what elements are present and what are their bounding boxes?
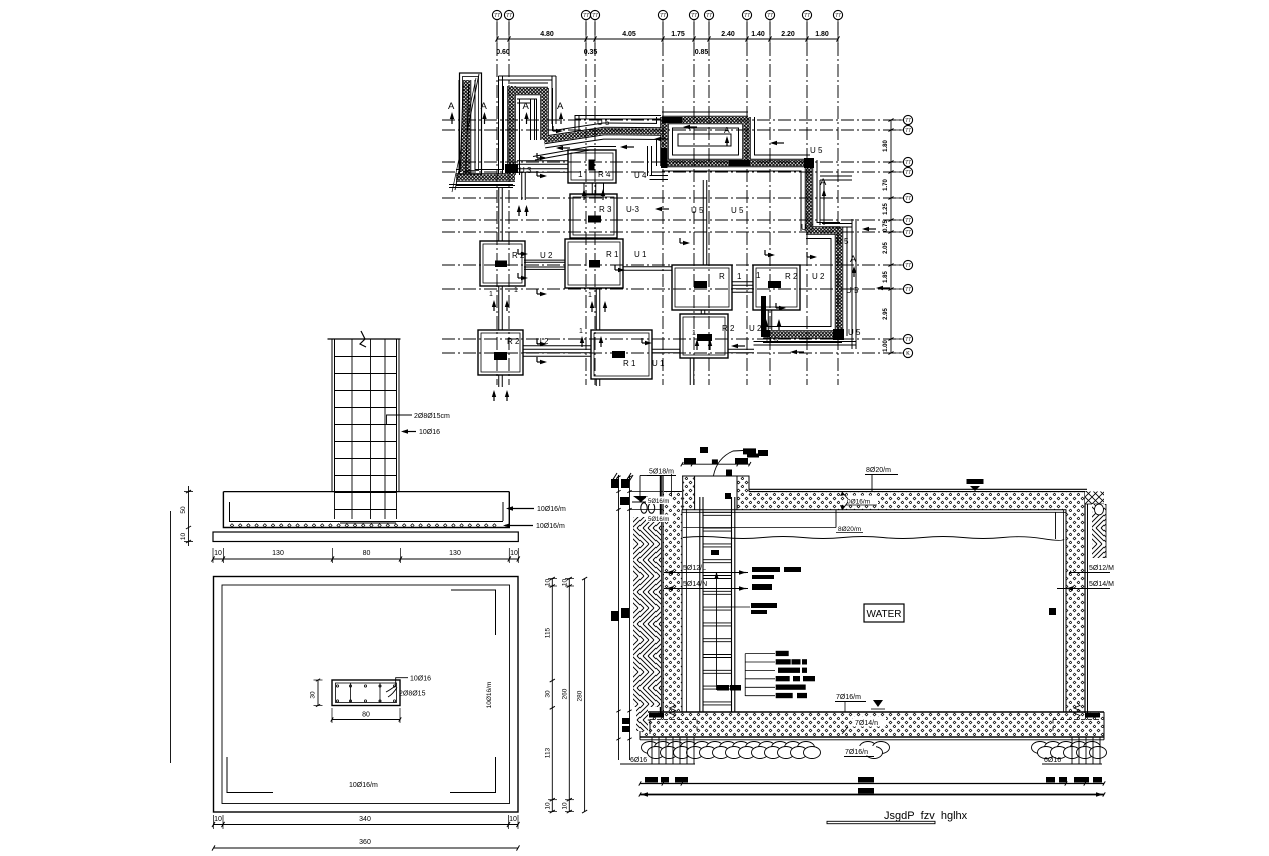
svg-text:1.00: 1.00 — [883, 340, 889, 352]
svg-text:10: 10 — [214, 816, 222, 823]
svg-text:JsgdP fzv hglhx: JsgdP fzv hglhx — [884, 810, 968, 822]
svg-text:6Ø16: 6Ø16 — [1044, 757, 1061, 764]
svg-text:1: 1 — [579, 328, 583, 335]
svg-text:2Ø8Ø15cm: 2Ø8Ø15cm — [414, 413, 450, 420]
svg-text:77: 77 — [592, 13, 598, 19]
svg-text:U 1: U 1 — [652, 359, 665, 368]
svg-text:10: 10 — [509, 816, 517, 823]
svg-text:WATER: WATER — [867, 609, 902, 620]
svg-text:77: 77 — [744, 13, 750, 19]
svg-text:1: 1 — [578, 170, 583, 179]
svg-text:77: 77 — [905, 337, 911, 343]
svg-text:U 2: U 2 — [812, 272, 825, 281]
svg-text:R 1: R 1 — [623, 359, 636, 368]
svg-text:10Ø16/m: 10Ø16/m — [536, 523, 565, 530]
svg-text:77: 77 — [494, 13, 500, 19]
svg-text:6Ø16: 6Ø16 — [630, 757, 647, 764]
svg-text:77: 77 — [835, 13, 841, 19]
svg-text:2Ø8Ø15: 2Ø8Ø15 — [399, 691, 426, 698]
svg-text:77: 77 — [905, 118, 911, 124]
svg-text:77: 77 — [905, 160, 911, 166]
svg-text:7Ø16/m: 7Ø16/m — [836, 694, 861, 701]
svg-text:U 5: U 5 — [691, 206, 704, 215]
svg-text:1: 1 — [588, 292, 592, 299]
svg-text:R 1: R 1 — [606, 250, 619, 259]
svg-text:1: 1 — [761, 310, 765, 317]
svg-text:77: 77 — [905, 218, 911, 224]
svg-text:4.80: 4.80 — [540, 31, 554, 38]
svg-text:U 5: U 5 — [801, 223, 814, 232]
svg-text:2.20: 2.20 — [781, 31, 795, 38]
svg-text:U 4: U 4 — [634, 171, 647, 180]
svg-text:10Ø16/m: 10Ø16/m — [537, 506, 566, 513]
svg-text:8Ø20/m: 8Ø20/m — [866, 467, 891, 474]
svg-text:10: 10 — [180, 533, 187, 541]
svg-text:0Ø16/m: 0Ø16/m — [847, 499, 870, 506]
svg-text:R 2: R 2 — [722, 324, 735, 333]
svg-text:A: A — [523, 101, 530, 112]
svg-text:1.80: 1.80 — [883, 140, 889, 152]
svg-text:77: 77 — [660, 13, 666, 19]
svg-text:U 2: U 2 — [540, 251, 553, 260]
svg-text:77: 77 — [905, 230, 911, 236]
svg-text:77: 77 — [905, 128, 911, 134]
svg-text:R 2: R 2 — [507, 337, 520, 346]
svg-text:10Ø16/m: 10Ø16/m — [349, 782, 378, 789]
svg-text:2.95: 2.95 — [883, 308, 889, 320]
svg-text:2.05: 2.05 — [883, 242, 889, 254]
svg-text:8Ø20/m: 8Ø20/m — [838, 526, 861, 533]
svg-text:360: 360 — [359, 839, 371, 846]
svg-text:5Ø16/m: 5Ø16/m — [648, 499, 669, 505]
svg-text:U 5: U 5 — [848, 328, 861, 337]
svg-text:77: 77 — [905, 170, 911, 176]
svg-text:10: 10 — [544, 579, 551, 587]
svg-text:U 5: U 5 — [846, 286, 859, 295]
svg-text:113: 113 — [544, 747, 551, 758]
svg-text:80: 80 — [362, 712, 370, 719]
svg-text:340: 340 — [359, 816, 371, 823]
svg-text:10: 10 — [510, 550, 518, 557]
svg-text:77: 77 — [691, 13, 697, 19]
svg-text:1: 1 — [489, 291, 493, 298]
svg-text:5Ø18/m: 5Ø18/m — [649, 469, 674, 476]
svg-text:77: 77 — [767, 13, 773, 19]
svg-text:A: A — [557, 101, 564, 112]
svg-text:A: A — [850, 254, 857, 265]
svg-text:5Ø12/L: 5Ø12/L — [683, 565, 706, 572]
svg-text:80: 80 — [363, 550, 371, 557]
svg-text:77: 77 — [583, 13, 589, 19]
svg-text:A: A — [724, 125, 730, 135]
svg-text:R: R — [719, 272, 725, 281]
svg-text:10Ø16: 10Ø16 — [419, 429, 440, 436]
svg-text:U 3: U 3 — [519, 166, 532, 175]
svg-text:U-3: U-3 — [626, 205, 639, 214]
svg-text:50: 50 — [180, 506, 187, 514]
svg-text:1.40: 1.40 — [751, 31, 765, 38]
svg-text:R 4: R 4 — [598, 170, 611, 179]
svg-text:130: 130 — [272, 550, 284, 557]
svg-text:0.85: 0.85 — [695, 49, 709, 56]
svg-text:260: 260 — [561, 688, 568, 699]
svg-text:130: 130 — [449, 550, 461, 557]
svg-text:1: 1 — [737, 272, 742, 281]
svg-text:1: 1 — [756, 271, 761, 280]
svg-text:10: 10 — [214, 550, 222, 557]
svg-text:U 5: U 5 — [810, 146, 823, 155]
svg-text:U 2: U 2 — [749, 324, 762, 333]
svg-text:5Ø14/M: 5Ø14/M — [1089, 581, 1114, 588]
svg-text:115: 115 — [544, 627, 551, 638]
svg-text:1: 1 — [692, 330, 696, 337]
svg-text:0.60: 0.60 — [496, 49, 510, 56]
svg-text:A: A — [448, 101, 455, 112]
svg-text:2.40: 2.40 — [721, 31, 735, 38]
svg-text:10: 10 — [561, 802, 568, 810]
svg-text:A: A — [481, 101, 488, 112]
svg-text:7Ø14/n: 7Ø14/n — [855, 720, 878, 727]
svg-text:280: 280 — [577, 690, 584, 701]
svg-text:U 5: U 5 — [836, 237, 849, 246]
svg-text:1: 1 — [514, 287, 518, 294]
svg-text:R 3: R 3 — [599, 205, 612, 214]
svg-text:10Ø16: 10Ø16 — [410, 676, 431, 683]
svg-text:R 2: R 2 — [785, 272, 798, 281]
svg-text:10: 10 — [561, 579, 568, 587]
svg-text:4.05: 4.05 — [622, 31, 636, 38]
svg-text:5Ø16/m: 5Ø16/m — [648, 517, 669, 523]
svg-text:U 1: U 1 — [634, 250, 647, 259]
svg-text:A: A — [820, 177, 827, 188]
svg-text:U 5: U 5 — [597, 118, 610, 127]
svg-text:0.35: 0.35 — [584, 49, 598, 56]
svg-text:5Ø14/N: 5Ø14/N — [683, 581, 707, 588]
svg-text:30: 30 — [310, 691, 317, 699]
svg-text:U 5: U 5 — [766, 336, 779, 345]
svg-text:U 5: U 5 — [731, 206, 744, 215]
svg-text:10: 10 — [544, 802, 551, 810]
svg-text:77: 77 — [804, 13, 810, 19]
svg-text:0.75: 0.75 — [883, 220, 889, 232]
svg-text:K: K — [906, 351, 910, 357]
svg-text:77: 77 — [506, 13, 512, 19]
svg-text:7Ø16/n: 7Ø16/n — [845, 749, 868, 756]
svg-text:77: 77 — [706, 13, 712, 19]
svg-text:1.75: 1.75 — [671, 31, 685, 38]
svg-text:1.70: 1.70 — [883, 179, 889, 191]
svg-text:77: 77 — [905, 263, 911, 269]
svg-text:77: 77 — [905, 196, 911, 202]
svg-text:5Ø12/M: 5Ø12/M — [1089, 565, 1114, 572]
svg-text:1.85: 1.85 — [883, 271, 889, 283]
svg-text:77: 77 — [905, 287, 911, 293]
svg-text:1.80: 1.80 — [815, 31, 829, 38]
svg-text:1.25: 1.25 — [883, 203, 889, 215]
svg-text:10Ø16/m: 10Ø16/m — [486, 682, 493, 709]
svg-text:30: 30 — [544, 690, 551, 698]
